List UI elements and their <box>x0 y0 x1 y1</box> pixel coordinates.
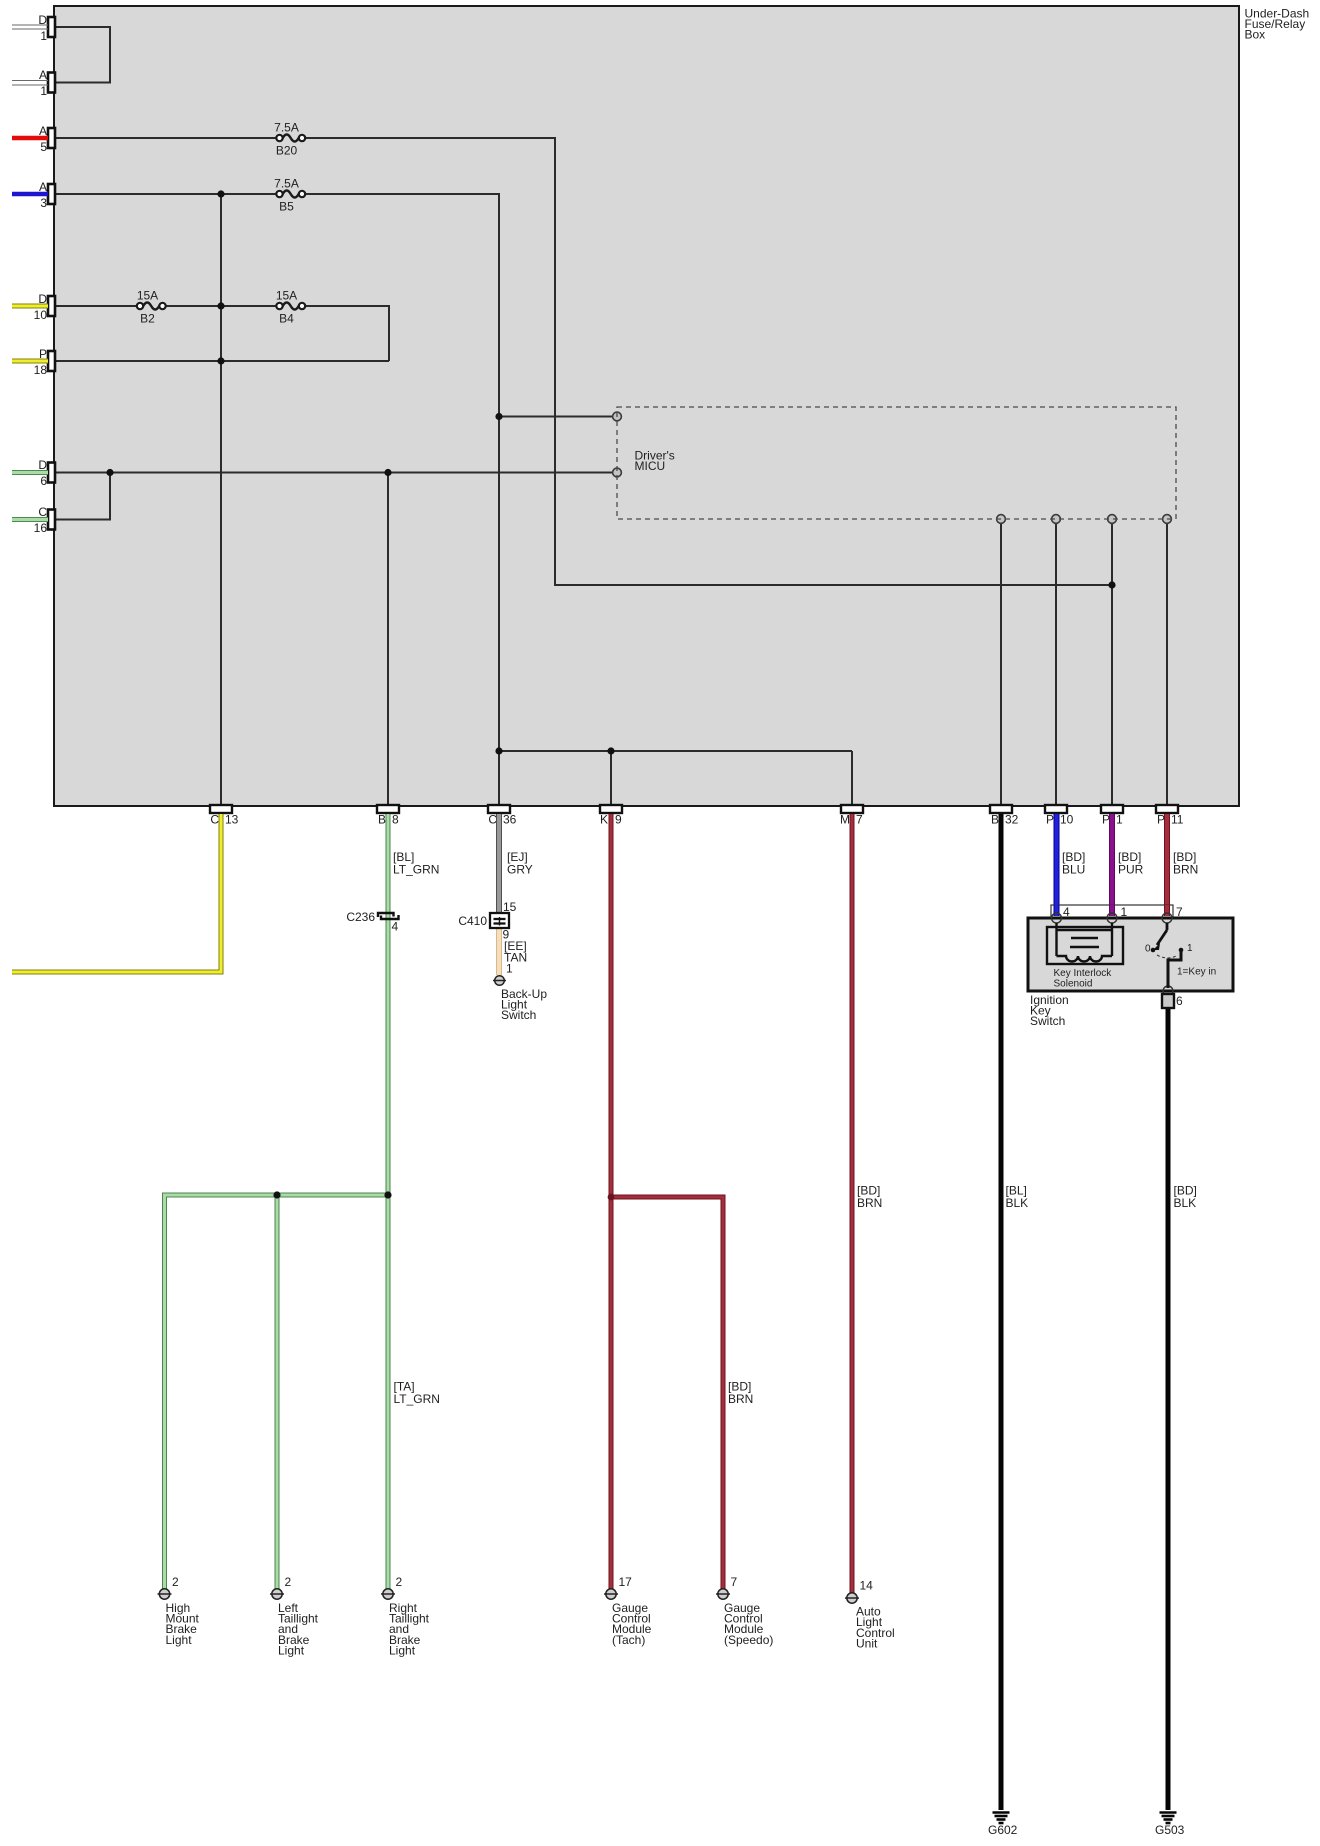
junction on feed row at K9 <box>607 747 614 754</box>
ground terminal at Back-Up Light Switch <box>493 976 506 986</box>
svg-text:1: 1 <box>506 962 513 976</box>
fuse B5 7.5A <box>276 191 305 198</box>
connector P1 <box>1101 805 1123 813</box>
svg-text:0: 0 <box>1145 944 1151 955</box>
MICU pin to B32 <box>997 515 1006 524</box>
wire B8 column vertical <box>387 473 389 807</box>
svg-text:BLU: BLU <box>1062 863 1085 877</box>
chassis ground G602 <box>993 1813 1010 1824</box>
svg-text:PUR: PUR <box>1118 863 1144 877</box>
junction on P18 row <box>217 357 224 364</box>
svg-text:10: 10 <box>1060 813 1074 827</box>
svg-text:K: K <box>600 813 608 827</box>
svg-text:7.5A: 7.5A <box>274 121 299 135</box>
svg-text:Light: Light <box>166 1633 193 1647</box>
wire K9 M7 feed row <box>499 750 852 752</box>
connector C410 on gray wire <box>490 913 509 928</box>
junction on C36 column at feed row <box>495 747 502 754</box>
wire YEL stub at P18 <box>12 359 48 364</box>
svg-text:4: 4 <box>392 920 399 934</box>
svg-text:BRN: BRN <box>1173 863 1198 877</box>
wire YEL from C13 <box>12 814 221 972</box>
MICU <box>613 412 1172 523</box>
pin 6 connector <box>1162 994 1174 1008</box>
wire A3 row to fuse B5 <box>55 193 278 195</box>
svg-text:2: 2 <box>285 1575 292 1589</box>
svg-text:1: 1 <box>1121 905 1128 919</box>
wire P18 row <box>55 360 389 362</box>
svg-text:C410: C410 <box>458 914 487 928</box>
connector C16 <box>48 510 55 530</box>
wire A5 row to fuse B20 <box>55 137 278 139</box>
wire BRN branch to Speedo <box>611 1197 723 1589</box>
svg-text:1: 1 <box>40 29 47 43</box>
connector B32 <box>990 805 1012 813</box>
svg-text:G602: G602 <box>988 1823 1018 1837</box>
connector D10 <box>48 296 55 316</box>
fuse B4 15A <box>276 303 305 310</box>
MICU pin left 1 <box>613 412 622 421</box>
connector P10 <box>1045 805 1067 813</box>
INTERNAL-LINES <box>55 27 1167 806</box>
svg-text:G503: G503 <box>1155 1823 1185 1837</box>
svg-text:6: 6 <box>1176 994 1183 1008</box>
svg-text:C: C <box>38 505 47 519</box>
svg-text:LT_GRN: LT_GRN <box>393 863 439 877</box>
svg-text:1=Key in: 1=Key in <box>1177 967 1216 978</box>
wire LT_GRN to Left Taillight <box>275 1195 280 1589</box>
svg-text:C: C <box>210 813 219 827</box>
dashed throw arc <box>1157 955 1178 958</box>
wire PUR through strip <box>1109 905 1115 916</box>
connector A5 <box>48 128 55 148</box>
ground terminal Left Taillight <box>270 1589 284 1599</box>
connector C236 on green wire <box>378 913 399 919</box>
wire contact 1 to pin 6 <box>1168 950 1181 988</box>
svg-text:P: P <box>1157 813 1165 827</box>
svg-text:13: 13 <box>225 813 239 827</box>
LEFT-CONNECTORS <box>48 17 55 530</box>
junction on P1 column <box>1108 581 1115 588</box>
ground terminal Gauge Speedo <box>716 1589 730 1599</box>
wire BLU stub at A3 <box>12 192 48 197</box>
svg-text:BLK: BLK <box>1174 1196 1197 1210</box>
wire D6 row to MICU left pin 2 <box>55 472 613 474</box>
connector A1 <box>48 73 55 93</box>
wire BLK from B32 to G602 <box>999 814 1004 1810</box>
wire C16 branch <box>55 473 110 520</box>
svg-text:9: 9 <box>615 813 622 827</box>
wire MICU pin to B32 <box>1000 524 1002 807</box>
svg-text:18: 18 <box>34 363 48 377</box>
MICU pin to P10 <box>1052 515 1061 524</box>
key switch blade <box>1157 923 1167 945</box>
wire YEL stub at D10 <box>12 304 48 309</box>
svg-text:D: D <box>38 458 47 472</box>
svg-text:7: 7 <box>1176 905 1183 919</box>
junction on D6 row at B8 column <box>384 469 391 476</box>
wire GRY from C36 <box>496 814 502 914</box>
svg-text:7: 7 <box>731 1575 738 1589</box>
ignition key switch label <box>1030 993 1069 1028</box>
MICU pin to P11 <box>1163 515 1172 524</box>
svg-text:LT_GRN: LT_GRN <box>394 1392 440 1406</box>
MICU pin to P1 <box>1108 515 1117 524</box>
svg-text:7: 7 <box>856 813 863 827</box>
Under-Dash Fuse/Relay Box label <box>1245 7 1310 42</box>
wire BRN from P11 <box>1164 814 1170 913</box>
svg-text:3: 3 <box>40 196 47 210</box>
svg-text:B: B <box>991 813 999 827</box>
junction dots on green bus <box>273 1191 280 1198</box>
ground terminal Auto Light Control Unit <box>845 1593 859 1603</box>
svg-text:Switch: Switch <box>1030 1014 1065 1028</box>
connector A3 <box>48 184 55 204</box>
wire C13 column vertical <box>220 194 222 806</box>
svg-text:B4: B4 <box>279 312 294 326</box>
junction on D10 row <box>217 302 224 309</box>
wire BLK from ignition pin 6 to G503 <box>1166 1007 1171 1810</box>
svg-text:B5: B5 <box>279 200 294 214</box>
wire MICU pin to P10 <box>1055 524 1057 807</box>
svg-text:Solenoid: Solenoid <box>1054 979 1093 990</box>
BOTTOM-CONNECTORS <box>210 805 1178 813</box>
connector C13 <box>210 805 232 813</box>
junction on A3 row <box>217 190 224 197</box>
svg-text:15A: 15A <box>276 289 297 303</box>
svg-text:BLK: BLK <box>1006 1196 1029 1210</box>
connector P11 <box>1156 805 1178 813</box>
svg-text:16: 16 <box>34 521 48 535</box>
chassis ground G503 <box>1160 1813 1177 1824</box>
svg-text:6: 6 <box>40 474 47 488</box>
svg-text:P: P <box>1046 813 1054 827</box>
svg-text:BRN: BRN <box>857 1196 882 1210</box>
junction on BRN <box>608 1194 615 1201</box>
svg-text:C: C <box>488 813 497 827</box>
svg-text:10: 10 <box>34 308 48 322</box>
connector P18 <box>48 351 55 371</box>
svg-text:M: M <box>840 813 850 827</box>
svg-text:4: 4 <box>1063 905 1070 919</box>
svg-text:Light: Light <box>389 1643 416 1657</box>
Driver's MICU dashed box <box>617 407 1176 519</box>
svg-text:36: 36 <box>503 813 517 827</box>
svg-text:1: 1 <box>40 84 47 98</box>
wire BLU through strip <box>1054 905 1060 916</box>
connector K9 <box>600 805 622 813</box>
pin circles <box>1052 913 1174 996</box>
svg-text:17: 17 <box>619 1575 633 1589</box>
svg-text:14: 14 <box>860 1579 874 1593</box>
wire LT_GRN from B8 <box>386 814 391 1589</box>
svg-text:Switch: Switch <box>501 1008 536 1022</box>
svg-text:B: B <box>378 813 386 827</box>
svg-text:1: 1 <box>1116 813 1123 827</box>
wire fuse B4 to P18 row bend <box>303 306 389 361</box>
wire D1 to A1 bracket <box>55 27 110 83</box>
wire K9 stub <box>610 751 612 806</box>
wire D10 row to fuse B2 <box>55 305 139 307</box>
svg-text:Key Interlock: Key Interlock <box>1054 968 1113 979</box>
junction at MICU branch <box>495 413 502 420</box>
connector B8 <box>377 805 399 813</box>
connector C36 <box>488 805 510 813</box>
wire TAN from C410 <box>496 928 502 975</box>
wire BLU from P10 <box>1054 814 1060 913</box>
wire PUR from P1 <box>1109 814 1115 913</box>
ground terminal Gauge Tach <box>604 1589 618 1599</box>
fuse B20 7.5A <box>276 135 305 142</box>
svg-text:32: 32 <box>1005 813 1019 827</box>
wire LT_GRN stub at C16 <box>12 517 48 522</box>
contact 0 <box>1151 948 1156 953</box>
svg-text:2: 2 <box>172 1575 179 1589</box>
svg-text:GRY: GRY <box>507 863 533 877</box>
Under-Dash Fuse/Relay Box body <box>54 6 1239 806</box>
svg-text:5: 5 <box>40 140 47 154</box>
ground terminal Right Taillight <box>381 1589 395 1599</box>
wire LT_GRN bus and High Mount Brake Light drop <box>165 1195 389 1589</box>
wire branch to MICU left pin 1 <box>499 416 613 418</box>
svg-text:B20: B20 <box>276 144 298 158</box>
svg-text:11: 11 <box>1171 813 1184 827</box>
svg-text:15A: 15A <box>137 289 158 303</box>
svg-text:(Speedo): (Speedo) <box>724 1633 773 1647</box>
connector M7 <box>841 805 863 813</box>
svg-text:B2: B2 <box>140 312 155 326</box>
svg-text:7.5A: 7.5A <box>274 177 299 191</box>
svg-text:P: P <box>1102 813 1110 827</box>
wire BRN from K9 <box>609 814 614 1589</box>
fuse B2 15A <box>137 303 166 310</box>
wire WHT stub at A1 <box>12 81 48 86</box>
svg-text:(Tach): (Tach) <box>612 1633 645 1647</box>
wire LT_GRN stub at D6 <box>12 470 48 475</box>
svg-text:1: 1 <box>1187 943 1193 954</box>
wire fuse B5 to C36 column <box>303 194 499 806</box>
svg-text:2: 2 <box>396 1575 403 1589</box>
wire fuse B20 to P1 column <box>303 138 1112 585</box>
svg-text:Box: Box <box>1245 27 1266 41</box>
ignition key switch connector strip <box>1051 905 1173 918</box>
svg-text:8: 8 <box>392 813 399 827</box>
svg-text:Light: Light <box>278 1643 305 1657</box>
ignition key switch body <box>1028 918 1233 991</box>
wire BRN from M7 <box>850 814 855 1593</box>
wire BRN through strip <box>1164 905 1170 916</box>
svg-text:MICU: MICU <box>635 459 666 473</box>
wire MICU pin to P11 <box>1166 524 1168 807</box>
MICU pin left 2 <box>613 468 622 477</box>
ground terminal High Mount Brake Light <box>158 1589 172 1599</box>
svg-text:A: A <box>39 68 47 82</box>
svg-text:BRN: BRN <box>728 1392 753 1406</box>
svg-text:15: 15 <box>503 900 517 914</box>
connector D6 <box>48 463 55 483</box>
connector D1 <box>48 17 55 37</box>
wire M7 stub <box>851 751 853 806</box>
junction on D6 row at C16 branch <box>106 469 113 476</box>
key interlock solenoid <box>1047 923 1123 964</box>
wire WHT stub at D1 <box>12 25 48 85</box>
svg-text:C236: C236 <box>346 910 375 924</box>
wire fuse B2 to fuse B4 <box>164 305 278 307</box>
wire RED stub at A5 <box>12 136 48 141</box>
svg-text:Unit: Unit <box>856 1636 878 1650</box>
contact 1 <box>1179 948 1184 953</box>
wire MICU pin to P1 <box>1111 524 1113 807</box>
